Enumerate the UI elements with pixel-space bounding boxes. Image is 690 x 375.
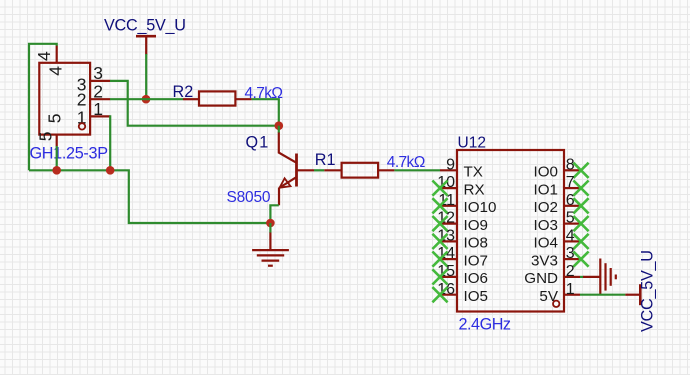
svg-text:4: 4	[45, 66, 65, 76]
svg-text:6: 6	[566, 192, 575, 209]
svg-text:RX: RX	[464, 181, 485, 198]
power flag VCC_5V_U right: stem pin	[625, 294, 640, 296]
resistor R1 body	[342, 163, 379, 178]
no-connect X on pin 6	[573, 198, 588, 213]
svg-text:IO1: IO1	[534, 181, 558, 198]
right ground symbol stem	[583, 276, 600, 278]
transistor Q1 emitter line	[279, 177, 296, 188]
svg-text:5: 5	[566, 210, 575, 227]
U12 pin 5 stub	[564, 223, 580, 225]
U12 pin 4 stub	[564, 240, 580, 242]
transistor Q1 emitter arrow	[280, 178, 291, 187]
svg-text:3: 3	[566, 245, 575, 262]
resistor R2 right pin	[235, 98, 251, 100]
resistor R2 body	[199, 91, 235, 105]
U12 pin 8 stub	[564, 169, 580, 171]
junction dot pin1/bottom net	[106, 166, 115, 175]
U12 pin 12 stub	[440, 223, 457, 225]
U12 pin 3 stub	[564, 258, 580, 260]
ground symbol bar 1	[252, 249, 289, 251]
no-connect X on pin 11	[432, 198, 447, 213]
U12 pin 7 stub	[564, 187, 580, 189]
svg-text:IO5: IO5	[464, 288, 488, 305]
no-connect X on pin 7	[573, 181, 588, 196]
right ground symbol bar 3	[610, 268, 612, 286]
right ground symbol bar 1	[599, 259, 601, 296]
transistor Q1 base bar	[295, 154, 298, 187]
no-connect X on pin 12	[432, 216, 447, 231]
svg-text:TX: TX	[464, 164, 483, 181]
power flag VCC_5V_U top: stem pin	[145, 36, 147, 54]
svg-text:IO6: IO6	[464, 270, 488, 287]
wire pin2 to R2 left	[110, 98, 183, 100]
resistor R2 left pin	[183, 98, 199, 100]
junction dot emitter/ground net	[266, 219, 275, 228]
wire pin5 down to bottom net	[56, 146, 58, 170]
transistor Q1 emitter pin	[278, 188, 280, 206]
svg-text:4: 4	[34, 51, 54, 61]
wire U12 pin 2 to right ground	[580, 276, 584, 278]
ground symbol bar 2	[257, 254, 284, 256]
svg-text:3V3: 3V3	[531, 252, 558, 269]
IC U12 body	[457, 150, 564, 312]
U12 pin 9 stub	[440, 169, 457, 171]
transistor Q1 base pin	[297, 169, 315, 171]
U12 pin 13 stub	[440, 240, 457, 242]
svg-text:1: 1	[93, 99, 103, 119]
svg-text:IO4: IO4	[534, 235, 558, 252]
U12 pin 11 stub	[440, 205, 457, 207]
wire R1 to U12 pin 9	[394, 169, 440, 171]
no-connect X on pin 3	[573, 252, 588, 267]
no-connect X on pin 13	[432, 234, 447, 249]
wire pin4 to left vertical	[29, 44, 57, 171]
right ground symbol bar 2	[604, 263, 606, 290]
svg-text:IO0: IO0	[534, 164, 558, 181]
svg-text:VCC_5V_U: VCC_5V_U	[639, 250, 657, 332]
svg-text:3: 3	[93, 63, 103, 83]
no-connect X on pin 14	[432, 252, 447, 267]
no-connect X on pin 16	[432, 287, 447, 302]
svg-text:2.4GHz: 2.4GHz	[459, 315, 512, 333]
svg-text:IO8: IO8	[464, 235, 488, 252]
no-connect X on pin 15	[432, 269, 447, 284]
wire bottom net horizontal	[29, 170, 270, 223]
U12 pin 6 stub	[564, 205, 580, 207]
svg-text:VCC_5V_U: VCC_5V_U	[104, 17, 186, 35]
svg-text:5: 5	[35, 131, 55, 141]
connector pin 4 stub (top)	[56, 46, 58, 63]
svg-text:8: 8	[566, 156, 575, 173]
transistor Q1 collector pin	[279, 133, 297, 163]
connector pin 2 stub	[90, 98, 110, 100]
svg-text:2: 2	[77, 89, 87, 109]
junction dot pin5/bottom net	[52, 166, 61, 175]
ground symbol bar 4	[268, 265, 273, 267]
power flag VCC_5V_U top: bar	[136, 35, 156, 38]
resistor R1 left pin	[324, 169, 341, 171]
U12 pin 2 stub	[564, 276, 580, 278]
connector pin 1 stub	[90, 115, 110, 117]
svg-text:IO9: IO9	[464, 217, 488, 234]
wire R2 right to collector junction	[252, 99, 279, 126]
svg-text:IO10: IO10	[464, 199, 497, 216]
svg-text:5V: 5V	[539, 288, 558, 305]
no-connect X on pin 10	[432, 181, 447, 196]
connector pin 1 indicator circle	[79, 123, 85, 129]
U12 pin 1 indicator circle	[553, 301, 559, 307]
svg-text:2: 2	[566, 263, 575, 280]
svg-text:1: 1	[566, 281, 575, 298]
svg-text:5: 5	[44, 113, 64, 123]
ground symbol stem	[269, 233, 271, 251]
wire junction to Q1 collector	[278, 126, 280, 133]
svg-text:9: 9	[446, 156, 455, 173]
svg-text:7: 7	[566, 174, 575, 191]
junction dot collector net	[275, 121, 284, 130]
junction dot at VCC / R2 net	[142, 95, 151, 104]
connector J1 GH1.25-3P: body	[39, 63, 90, 135]
power flag VCC_5V_U right: bar	[639, 284, 642, 305]
wire Q1 base to R1	[314, 169, 324, 171]
no-connect X on pin 5	[573, 216, 588, 231]
U12 pin 10 stub	[440, 187, 457, 189]
no-connect X on pin 8	[573, 163, 588, 178]
U12 pin 14 stub	[440, 258, 457, 260]
right ground symbol bar 4	[615, 275, 617, 280]
wire emitter to ground junction	[270, 205, 278, 223]
no-connect X on pin 4	[573, 234, 588, 249]
svg-text:GND: GND	[524, 270, 558, 287]
svg-text:IO3: IO3	[534, 217, 558, 234]
svg-text:Q1: Q1	[246, 134, 270, 152]
svg-text:IO7: IO7	[464, 252, 488, 269]
U12 pin 1 stub	[564, 294, 580, 296]
wire U12 pin 1 (5V) to VCC flag	[580, 294, 625, 296]
connector pin 5 stub (bottom)	[56, 135, 58, 147]
ground symbol bar 3	[262, 260, 280, 262]
wire pin3 over to collector net	[110, 81, 279, 126]
connector pin 3 stub	[90, 80, 110, 82]
wire VCC stem to net	[145, 54, 147, 99]
svg-text:R1: R1	[315, 151, 336, 169]
U12 pin 15 stub	[440, 276, 457, 278]
wire junction to ground symbol	[269, 223, 271, 233]
resistor R1 right pin	[378, 169, 394, 171]
U12 pin 16 stub	[440, 294, 457, 296]
svg-text:4: 4	[566, 228, 575, 245]
svg-text:S8050: S8050	[227, 189, 271, 206]
wire pin1 down to bottom net	[109, 116, 110, 170]
svg-text:IO2: IO2	[534, 199, 558, 216]
svg-text:GH1.25-3P: GH1.25-3P	[30, 145, 109, 163]
svg-text:4.7kΩ: 4.7kΩ	[387, 154, 426, 171]
